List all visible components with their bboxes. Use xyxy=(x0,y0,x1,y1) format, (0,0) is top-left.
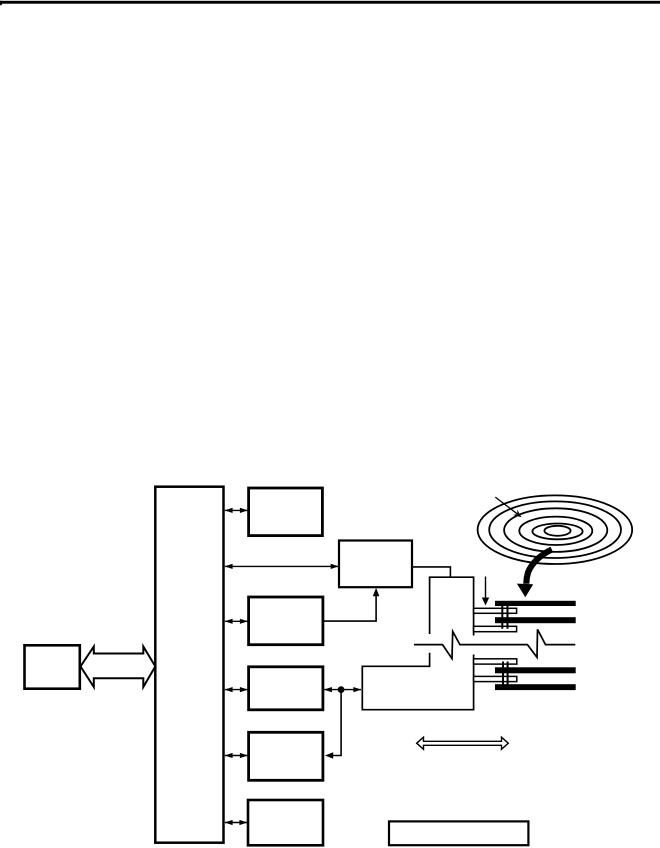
bus to box5 double arrow xyxy=(225,820,248,825)
page-top left notch xyxy=(0,1,2,5)
platter bar 1 xyxy=(495,601,576,606)
disk platter ring 5 xyxy=(532,524,582,540)
head arm 3 xyxy=(474,659,517,664)
host-to-bus wide outline double arrow xyxy=(81,647,156,688)
platter bar 2 xyxy=(495,617,576,623)
break line with two zigzags xyxy=(414,629,575,658)
head slider ticks lower pair xyxy=(502,662,504,687)
box 5 xyxy=(248,800,323,845)
platter bar 3 xyxy=(495,667,576,673)
box 3 xyxy=(249,667,323,710)
data register box (upper middle) xyxy=(339,541,412,588)
head-position arrow (thin vertical) xyxy=(485,577,487,600)
bus to box1 double arrow xyxy=(225,508,248,513)
wire junction down to box4 xyxy=(328,690,342,756)
disk platter ring 2 xyxy=(489,501,621,558)
disk platter ring 4 xyxy=(519,517,592,545)
track pointer arrow (thin diagonal) xyxy=(495,497,518,515)
bus to box2 double arrow xyxy=(225,619,248,624)
head arm 2 xyxy=(474,626,517,631)
bus to box3 double arrow xyxy=(225,687,248,692)
head arm 4 xyxy=(474,676,517,681)
platter bar 4 xyxy=(495,684,576,690)
head travel outline double arrow xyxy=(417,737,509,749)
disk platter ring 1 (outer) xyxy=(478,495,633,564)
box 2 xyxy=(249,597,323,645)
long bus to data-register double arrow xyxy=(225,564,339,569)
box3 to actuator double arrow xyxy=(324,687,362,692)
head slider ticks upper pair xyxy=(501,603,503,629)
wire data register to actuator top xyxy=(412,567,450,577)
wire box2 to data register (up arrow) xyxy=(323,591,376,622)
actuator upper body xyxy=(430,577,474,635)
page-top scan bar xyxy=(0,1,660,4)
junction dot xyxy=(338,686,345,693)
system bus box (tall vertical) xyxy=(155,487,223,843)
disk platter ring 3 xyxy=(504,508,607,552)
actuator lower body / servo box xyxy=(362,653,473,710)
caption rectangle xyxy=(389,821,528,845)
head arm 1 xyxy=(474,608,517,613)
box 4 xyxy=(249,732,323,780)
fat curved arrow disk to heads xyxy=(526,550,552,584)
disk hub ellipse xyxy=(544,526,570,536)
host box (small left box) xyxy=(25,645,80,688)
box 1 (top right of bus) xyxy=(249,488,323,536)
bus to box4 double arrow xyxy=(225,753,248,758)
